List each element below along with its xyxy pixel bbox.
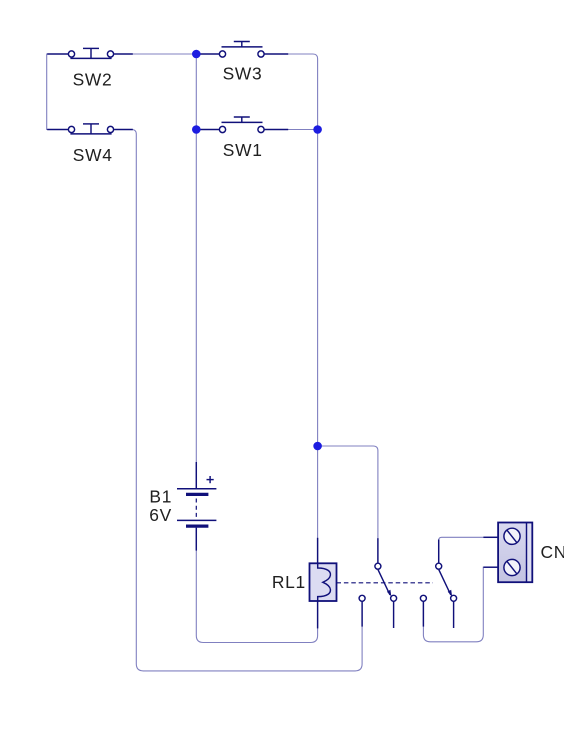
node B junction	[192, 125, 201, 134]
switch SW4 (push-to-break)	[47, 124, 133, 134]
svg-text:SW1: SW1	[223, 140, 263, 160]
svg-text:SW3: SW3	[223, 64, 263, 84]
wire node A to SW3-left	[196, 53, 219, 55]
wire SW4-right down to bottom rail to relay pole1 NC contact	[114, 130, 362, 671]
relay linkage dashed line	[337, 582, 434, 584]
wire SW1-right to node C	[265, 129, 318, 131]
battery B1	[177, 462, 216, 551]
wire SW3-right corner down to node C	[265, 54, 318, 130]
relay pole 2	[420, 540, 456, 629]
switch SW3 (push-to-make)	[200, 42, 288, 58]
wire node D branch to relay pole1 common	[318, 446, 378, 563]
svg-text:RL1: RL1	[272, 572, 306, 592]
switch SW1 (push-to-make)	[200, 117, 288, 133]
node A junction	[192, 50, 201, 59]
node C junction	[313, 125, 322, 134]
wire relay pole2 NC contact to CN lower	[423, 567, 498, 642]
svg-text:CN: CN	[541, 542, 564, 562]
wire node B to SW1-left	[196, 129, 219, 131]
wire SW2-left to SW4-left vertical	[47, 54, 69, 130]
svg-text:SW2: SW2	[73, 69, 113, 89]
node D junction	[313, 442, 322, 451]
svg-text:B1: B1	[149, 486, 172, 506]
wire relay pole2 common to CN upper	[439, 537, 498, 563]
svg-text:6V: 6V	[149, 505, 172, 525]
svg-text:SW4: SW4	[73, 145, 113, 165]
wire node C down to coil top	[317, 130, 319, 564]
wire battery bottom to coil bottom	[196, 526, 317, 643]
relay pole 1	[359, 538, 397, 628]
switch SW2 (push-to-break)	[47, 48, 133, 58]
wire node A to battery top	[195, 54, 197, 488]
relay RL1 coil	[310, 538, 337, 629]
wire SW2-right to node A	[114, 53, 196, 55]
connector CN	[483, 523, 532, 583]
